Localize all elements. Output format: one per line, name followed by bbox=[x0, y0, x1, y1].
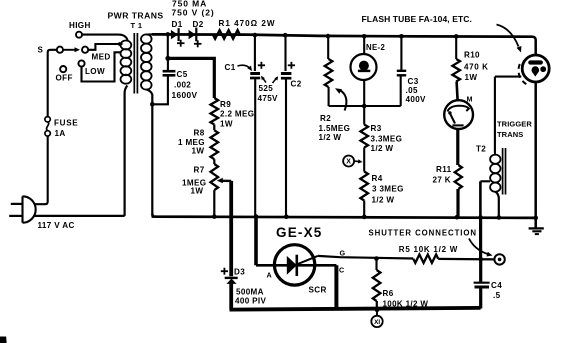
plus mark at D1 bbox=[177, 42, 185, 44]
wire R10 top lead bbox=[455, 36, 457, 59]
wire bottom bus heavy bbox=[230, 308, 481, 310]
svg-text:1/2 W: 1/2 W bbox=[371, 144, 394, 153]
svg-text:470 K: 470 K bbox=[464, 63, 489, 72]
plug top prong bbox=[11, 203, 22, 205]
T1 core bbox=[133, 33, 135, 94]
node T2-tap/mid-bus bbox=[478, 215, 483, 220]
wire riser to C4 bbox=[479, 259, 482, 282]
diode D1 bbox=[171, 30, 178, 39]
switch contact MED bbox=[82, 47, 88, 53]
wire T2 tap down to mid bus bbox=[479, 181, 482, 217]
wire R8 to R7 bbox=[213, 159, 215, 164]
resistor R8 bbox=[211, 130, 219, 159]
wire C2 top lead bbox=[284, 35, 286, 71]
svg-text:1/2 W: 1/2 W bbox=[319, 133, 342, 142]
svg-text:3 3MEG: 3 3MEG bbox=[372, 185, 404, 194]
wire C2 bottom to mid bus bbox=[285, 78, 287, 217]
switch contact HIGH bbox=[76, 32, 82, 38]
capacitor C5 bbox=[163, 70, 176, 73]
wire NE-2 top lead bbox=[363, 36, 365, 54]
svg-text:G: G bbox=[340, 248, 346, 257]
svg-text:D1: D1 bbox=[172, 20, 183, 29]
svg-text:525: 525 bbox=[259, 84, 274, 93]
svg-text:1600V: 1600V bbox=[172, 90, 198, 100]
plus mark C1 bbox=[258, 64, 265, 66]
svg-text:C: C bbox=[339, 265, 345, 274]
plug bottom prong bbox=[9, 215, 22, 217]
svg-text:1W: 1W bbox=[465, 73, 478, 82]
capacitor C2 bbox=[281, 72, 292, 75]
node top-bus/R2 bbox=[326, 34, 331, 39]
node top-bus/NE2 bbox=[362, 34, 367, 39]
wire top bus corner down to flash tube bbox=[532, 37, 536, 56]
wire R6 top lead bbox=[375, 259, 377, 270]
svg-text:FLASH TUBE FA-104, ETC.: FLASH TUBE FA-104, ETC. bbox=[362, 14, 472, 24]
wire R3 to R4 bbox=[363, 148, 365, 172]
wire T1 primary bottom to plug line bbox=[125, 86, 128, 216]
capacitor C4 bbox=[474, 282, 490, 284]
svg-text:HIGH: HIGH bbox=[69, 21, 91, 30]
diode D2 bbox=[189, 30, 196, 39]
wire MED tap to T1 bbox=[88, 44, 119, 50]
wire C3 bottom lead bbox=[400, 76, 402, 106]
NE-2 electrode dot bbox=[359, 61, 369, 71]
resistor R3 bbox=[360, 125, 368, 148]
SCR diode triangle bbox=[287, 256, 297, 275]
node top-bus/C5 junction bbox=[166, 32, 171, 37]
svg-text:OFF: OFF bbox=[56, 74, 73, 83]
svg-text:R10: R10 bbox=[464, 50, 480, 59]
svg-text:C4: C4 bbox=[491, 281, 502, 290]
wire HIGH to T1 primary top bbox=[82, 35, 127, 40]
capacitor C5 lead from node bbox=[167, 59, 169, 71]
wire plug-top to fuse riser bbox=[34, 136, 47, 204]
node top-bus/R10 bbox=[454, 34, 459, 39]
svg-text:1A: 1A bbox=[55, 129, 66, 138]
wire mid bus bbox=[152, 214, 535, 218]
resistor R9 bbox=[211, 98, 219, 125]
svg-text:R1 470Ω 2W: R1 470Ω 2W bbox=[219, 19, 276, 28]
resistor R11 bbox=[455, 165, 462, 189]
capacitor C1 bbox=[250, 72, 260, 75]
node X1 with stub bbox=[376, 310, 378, 316]
node C4-riser/gate-line bbox=[478, 257, 483, 262]
svg-text:750 V (2): 750 V (2) bbox=[172, 7, 215, 17]
svg-text:1.5MEG: 1.5MEG bbox=[319, 124, 351, 133]
plus mark C2 bbox=[288, 64, 295, 66]
svg-text:.05: .05 bbox=[406, 86, 418, 95]
wire R10 to meter bbox=[457, 82, 458, 101]
svg-text:C5: C5 bbox=[177, 70, 188, 79]
T1 secondary winding bbox=[141, 34, 152, 43]
wire plug-bottom to T1 primary bbox=[34, 215, 125, 217]
wire cathode down heavy bbox=[334, 265, 338, 309]
node NE2 column crosses link bbox=[362, 104, 367, 109]
svg-text:500MA: 500MA bbox=[236, 287, 264, 296]
resistor R5 bbox=[413, 255, 438, 263]
capacitor C3 bbox=[397, 70, 406, 72]
svg-text:117 V AC: 117 V AC bbox=[38, 221, 75, 230]
T2 core bbox=[502, 148, 504, 195]
wire R7 bottom to mid bus bbox=[213, 190, 215, 217]
flash tube anode bar bbox=[530, 60, 541, 64]
fuse F1 bbox=[45, 117, 50, 122]
node C1/mid-bus bbox=[254, 214, 259, 219]
node C2/mid-bus bbox=[284, 214, 289, 219]
svg-text:X: X bbox=[346, 159, 351, 166]
svg-text:R3: R3 bbox=[371, 124, 382, 133]
svg-text:C2: C2 bbox=[291, 80, 302, 89]
svg-text:2.2 MEG: 2.2 MEG bbox=[220, 110, 254, 119]
svg-text:400 PIV: 400 PIV bbox=[235, 297, 266, 306]
svg-text:1/2 W: 1/2 W bbox=[372, 196, 395, 205]
node mid-bus/ground bbox=[533, 216, 538, 221]
wire bus down to C5 node bbox=[167, 34, 169, 58]
wire T2 primary top lead bbox=[494, 77, 497, 155]
wire T1 secondary top to top bus bbox=[147, 33, 153, 35]
svg-text:XI: XI bbox=[374, 319, 380, 326]
svg-text:R9: R9 bbox=[220, 100, 231, 109]
node R11/mid-bus bbox=[455, 215, 460, 220]
wire T1 secondary bottom down (left rail) bbox=[147, 89, 153, 214]
node R7/mid-bus bbox=[212, 214, 217, 219]
svg-text:GE-X5: GE-X5 bbox=[276, 225, 323, 240]
wire C4 bottom to bottom bus bbox=[479, 288, 482, 309]
svg-text:LOW: LOW bbox=[85, 67, 105, 76]
node top-bus/C3 bbox=[399, 34, 404, 39]
node heavy line to R9 bbox=[165, 56, 170, 61]
wire anode into SCR bbox=[256, 264, 287, 267]
resistor R4 bbox=[360, 172, 368, 201]
svg-text:R7: R7 bbox=[194, 165, 205, 174]
svg-text:1W: 1W bbox=[191, 186, 204, 195]
meter M body bbox=[444, 100, 473, 129]
plug 117VAC body bbox=[21, 196, 23, 222]
node top-bus/C1 bbox=[253, 33, 258, 38]
svg-text:TRANS: TRANS bbox=[497, 130, 523, 139]
svg-text:PWR TRANS: PWR TRANS bbox=[108, 10, 164, 20]
node T2-bottom/mid-bus bbox=[497, 215, 502, 220]
svg-text:S: S bbox=[38, 45, 44, 54]
plus mark at D3 bbox=[221, 270, 228, 272]
wire C4 riser heavy bbox=[479, 217, 482, 259]
node top-bus/C2 bbox=[283, 33, 288, 38]
wire heavy feed to R9 bbox=[168, 58, 214, 98]
plus mark at D2 bbox=[194, 43, 202, 45]
wire T2 bottom lead to mid bus bbox=[496, 192, 499, 218]
wire C3 top lead bbox=[400, 36, 402, 70]
wire R5 to terminal bbox=[438, 258, 494, 261]
svg-text:.5: .5 bbox=[493, 291, 501, 300]
svg-text:MED: MED bbox=[92, 53, 111, 62]
wire R2-C3 bottom link bbox=[329, 105, 401, 107]
svg-text:SCR: SCR bbox=[309, 285, 327, 294]
svg-text:T2: T2 bbox=[476, 145, 486, 154]
scan mark bottom-left bbox=[0, 337, 7, 343]
meter M needle bbox=[449, 112, 455, 123]
wire R4 bottom to mid bus bbox=[363, 201, 365, 217]
wire NE-2 bottom lead bbox=[363, 80, 365, 125]
resistor R7 bbox=[211, 164, 219, 190]
pot arrow R2 bbox=[340, 90, 347, 111]
node gate/R6 junction bbox=[374, 256, 379, 261]
SCR gate diagonal bbox=[297, 256, 318, 264]
svg-text:1W: 1W bbox=[192, 146, 205, 155]
wire R2 top lead bbox=[327, 36, 329, 59]
node X with arrow bbox=[343, 156, 354, 167]
svg-text:R5 10K 1/2 W: R5 10K 1/2 W bbox=[399, 245, 458, 254]
wire R11 bottom to mid bus bbox=[456, 189, 459, 217]
svg-text:SHUTTER CONNECTION: SHUTTER CONNECTION bbox=[369, 229, 478, 238]
svg-text:D2: D2 bbox=[193, 20, 204, 29]
T1 primary winding bbox=[121, 41, 132, 50]
node R4/mid-bus bbox=[362, 215, 367, 220]
meter M scale arc bbox=[448, 106, 469, 112]
wire R6 bottom to bottom bus bbox=[376, 301, 378, 310]
wiper arrow of R7 divider tap bbox=[221, 180, 231, 182]
wire gate to R5 bbox=[318, 256, 413, 259]
svg-text:NE-2: NE-2 bbox=[366, 43, 385, 52]
svg-text:D3: D3 bbox=[234, 267, 245, 276]
SCR cathode bar bbox=[295, 255, 298, 276]
NE-2 electrode bar bbox=[358, 70, 370, 73]
wire meter to R11 bbox=[456, 129, 459, 165]
svg-text:A: A bbox=[267, 270, 273, 279]
resistor R10 bbox=[452, 59, 460, 82]
wire C5 bottom to left rail bbox=[152, 77, 168, 105]
meter M bottom bar bbox=[452, 124, 463, 126]
switch S pole contact bbox=[57, 47, 63, 53]
svg-text:C1: C1 bbox=[225, 63, 236, 72]
wire top bus bbox=[152, 34, 533, 36]
svg-text:C3: C3 bbox=[408, 77, 419, 86]
svg-text:R11: R11 bbox=[436, 165, 452, 174]
switch contact OFF bbox=[60, 66, 66, 72]
resistor R2 (pot) bbox=[325, 59, 333, 87]
svg-text:R2: R2 bbox=[320, 114, 331, 123]
svg-text:R4: R4 bbox=[372, 174, 383, 183]
svg-text:T 1: T 1 bbox=[131, 21, 143, 30]
wire fuse to switch S bbox=[48, 50, 57, 117]
resistor R1 bbox=[213, 30, 240, 39]
wire C1 top lead bbox=[254, 35, 256, 71]
arrow to shutter terminal bbox=[469, 239, 488, 255]
node R6/bottom-bus bbox=[375, 308, 380, 313]
shutter connection terminal bbox=[494, 254, 504, 264]
T2 primary winding bbox=[490, 155, 500, 164]
diode D3 bbox=[225, 277, 238, 279]
arrow to flash tube bbox=[497, 25, 519, 47]
wire anode feed (C1 rail) heavy bbox=[254, 217, 258, 266]
svg-text:R8: R8 bbox=[194, 128, 205, 137]
wire D3 to bottom bus bbox=[229, 284, 233, 310]
svg-text:27 K: 27 K bbox=[433, 176, 452, 185]
wire C1 bottom to mid bus bbox=[254, 78, 256, 217]
flash tube electrode dot 2 bbox=[540, 66, 546, 72]
wire R9 to R8 bbox=[213, 125, 215, 131]
svg-text:.002: .002 bbox=[174, 81, 191, 90]
ground symbol bbox=[535, 218, 537, 228]
flash tube trigger dashed arc bbox=[518, 64, 526, 84]
svg-text:400V: 400V bbox=[406, 95, 427, 104]
node C5/left-rail junction bbox=[150, 102, 155, 107]
svg-text:1W: 1W bbox=[220, 119, 233, 128]
svg-text:475V: 475V bbox=[258, 94, 279, 103]
wire flash tube bottom to ground rail bbox=[534, 82, 537, 228]
svg-text:R6: R6 bbox=[383, 289, 394, 298]
switch contact LOW bbox=[78, 60, 84, 66]
svg-text:3.3MEG: 3.3MEG bbox=[371, 134, 403, 143]
wire T2 tap bbox=[480, 180, 490, 182]
flash tube FA-104 envelope bbox=[522, 55, 549, 82]
wire trigger line to tube bbox=[495, 76, 521, 78]
wire LOW tap to T1 bbox=[82, 52, 122, 81]
svg-text:FUSE: FUSE bbox=[54, 119, 78, 128]
wire R7 wiper down heavy bbox=[229, 181, 233, 276]
svg-text:TRIGGER: TRIGGER bbox=[497, 120, 532, 129]
resistor R6 bbox=[373, 270, 381, 301]
neon lamp NE-2 bbox=[351, 54, 377, 80]
flash tube cathode dot bbox=[532, 66, 540, 74]
switch S arm with arrow bbox=[63, 49, 75, 51]
SCR GE-X5 envelope bbox=[274, 245, 314, 285]
wire cathode out bbox=[297, 264, 337, 267]
wire R2 bottom lead bbox=[328, 87, 330, 106]
